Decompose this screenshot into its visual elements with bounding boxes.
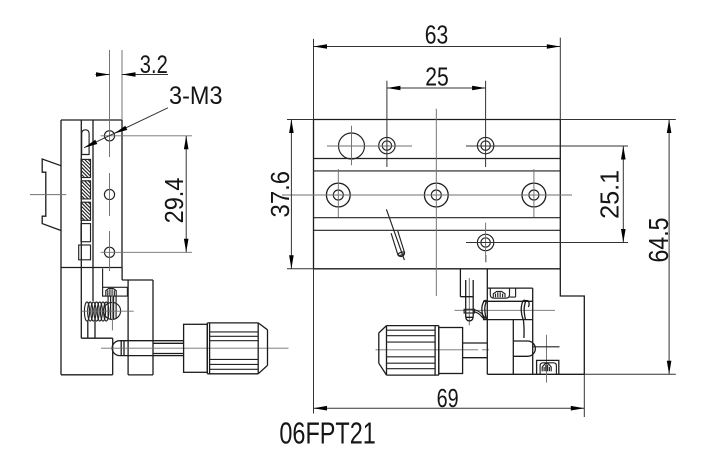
svg-text:64.5: 64.5 [643, 218, 674, 263]
svg-text:29.4: 29.4 [159, 178, 189, 224]
svg-text:06FPT21: 06FPT21 [279, 416, 376, 451]
svg-text:37.6: 37.6 [265, 171, 295, 218]
svg-text:63: 63 [425, 20, 449, 50]
svg-text:69: 69 [437, 383, 459, 413]
svg-text:3-M3: 3-M3 [169, 82, 223, 110]
svg-text:3.2: 3.2 [140, 51, 168, 79]
svg-text:25.1: 25.1 [595, 170, 625, 219]
svg-text:25: 25 [425, 62, 449, 92]
